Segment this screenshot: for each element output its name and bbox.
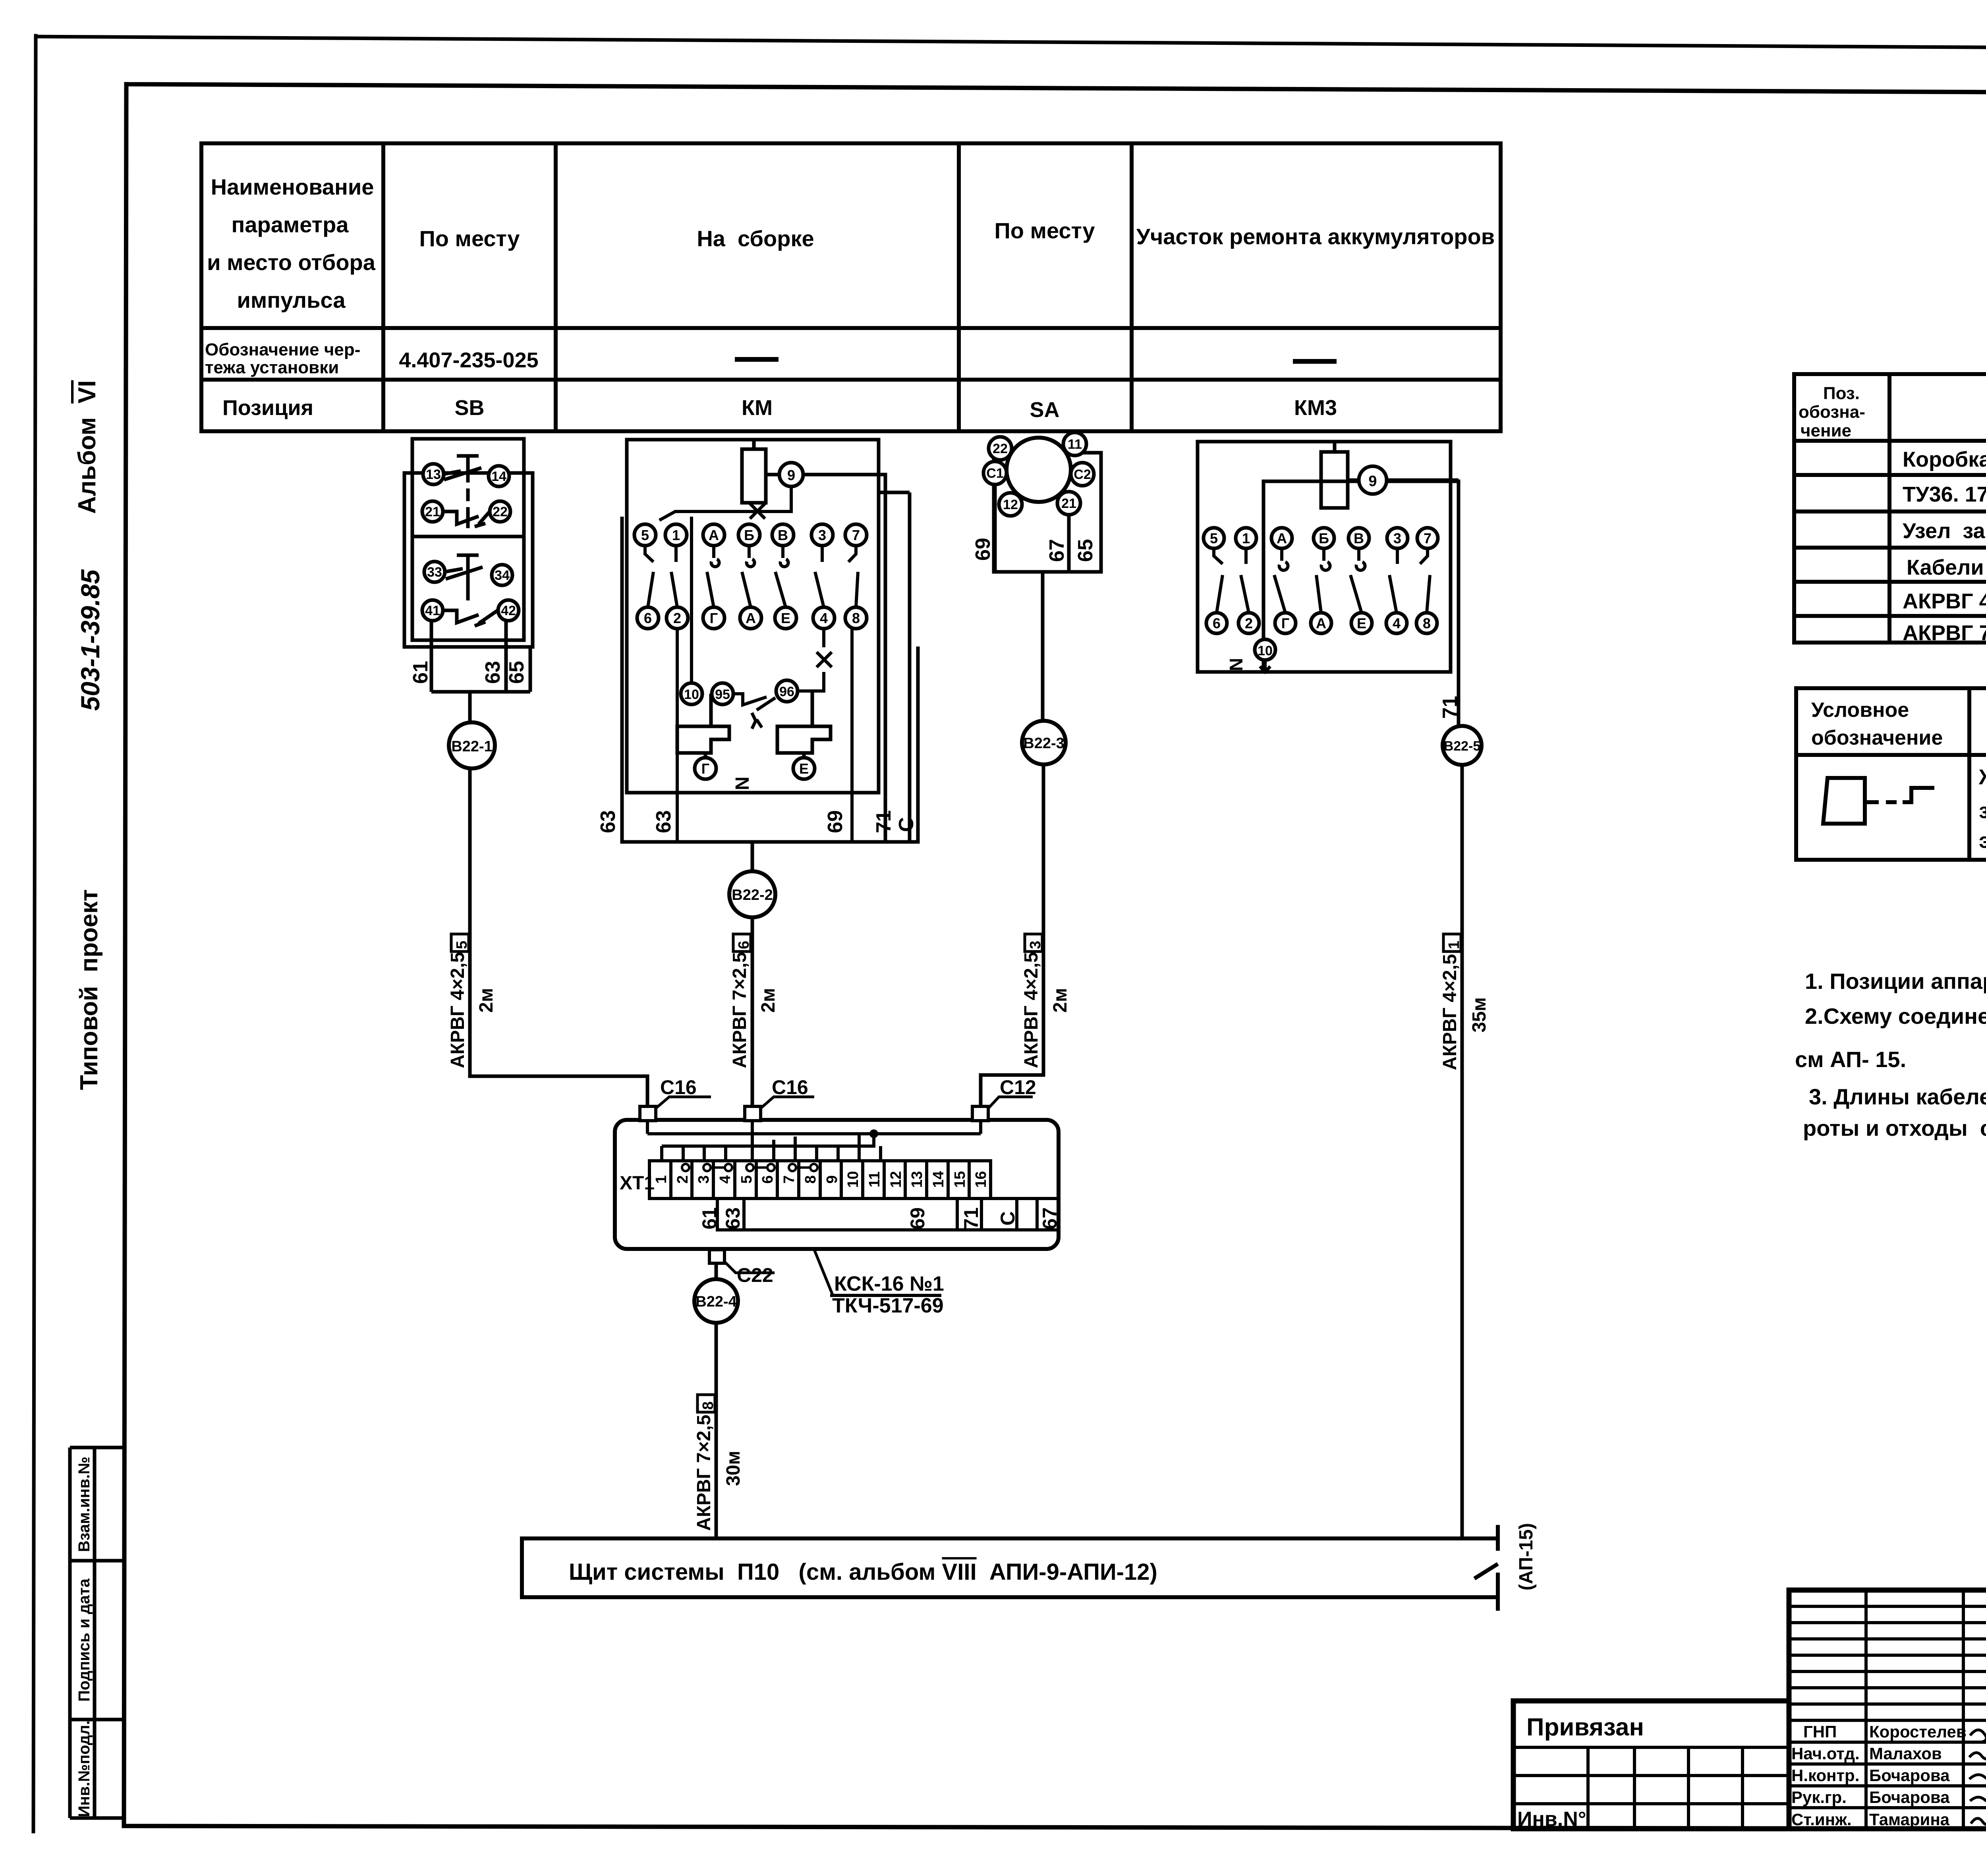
svg-text:9: 9 xyxy=(1368,473,1377,490)
svg-text:Участок ремонта аккумуляторов: Участок ремонта аккумуляторов xyxy=(1136,224,1495,249)
svg-text:В22-2: В22-2 xyxy=(732,887,773,903)
parts header Поз. обозначение xyxy=(1799,384,1865,440)
svg-text:3. Длины кабелей даны с учето: 3. Длины кабелей даны с учетом 6% надбав… xyxy=(1809,1084,1986,1109)
KM wire from terminal 4 to cross lower xyxy=(798,629,832,691)
svg-text:тежа установки: тежа установки xyxy=(205,358,339,377)
svg-text:Узел зануления: Узел зануления xyxy=(1903,519,1986,543)
svg-text:71: 71 xyxy=(1439,696,1462,719)
junction box КСК-16 outer xyxy=(615,1120,1059,1249)
svg-text:А: А xyxy=(1277,530,1287,546)
KM terminal 1 xyxy=(665,524,687,546)
svg-text:5: 5 xyxy=(1210,530,1218,546)
svg-text:Щит системы П10 (см. альбом: Щит системы П10 (см. альбом VIII АПИ-9-А… xyxy=(569,1559,1157,1585)
SA terminal 22 xyxy=(989,437,1012,460)
KM lambda mark xyxy=(752,713,762,729)
terminal link bars xyxy=(711,1166,810,1169)
row: Обозначение чертежа установки xyxy=(205,340,360,377)
SB body box xyxy=(412,439,524,640)
KM contact strokes top row to bottom row xyxy=(645,546,653,607)
dash in Участок column xyxy=(1293,359,1337,364)
SB bottom bus joint xyxy=(431,692,530,722)
KM coil feed wire xyxy=(752,440,756,449)
svg-text:13: 13 xyxy=(909,1171,925,1188)
title block xyxy=(1513,1590,1986,1829)
svg-text:11: 11 xyxy=(866,1172,883,1187)
svg-text:67: 67 xyxy=(1045,539,1068,562)
SA terminal 12 xyxy=(999,493,1022,516)
cable wire SA down xyxy=(1041,572,1045,722)
svg-text:12: 12 xyxy=(888,1171,904,1188)
SB contact 33-34 link xyxy=(445,569,502,575)
svg-text:КМ: КМ xyxy=(742,396,773,420)
KM3 contact strokes xyxy=(1214,548,1223,613)
svg-text:14: 14 xyxy=(491,469,506,484)
svg-text:Н.контр.: Н.контр. xyxy=(1791,1766,1859,1785)
KM terminal 6 xyxy=(637,607,659,629)
KM3 terminal Г xyxy=(1275,613,1296,633)
svg-text:4: 4 xyxy=(1393,615,1401,631)
svg-text:Малахов: Малахов xyxy=(1869,1744,1942,1763)
svg-text:6: 6 xyxy=(736,941,752,949)
KM wire 69 vertical xyxy=(852,629,856,842)
svg-text:71: 71 xyxy=(960,1207,982,1229)
svg-text:5: 5 xyxy=(738,1175,755,1183)
KM terminal 8 xyxy=(845,607,867,629)
KM3 terminal А2 xyxy=(1311,613,1331,633)
SA wire 67 xyxy=(1067,515,1071,572)
cable circle В22-1 xyxy=(449,722,495,768)
svg-text:А: А xyxy=(709,527,719,543)
svg-text:С22: С22 xyxy=(737,1264,773,1286)
svg-text:61: 61 xyxy=(409,661,432,684)
KM3 bus box xyxy=(1263,481,1459,726)
svg-text:Бочарова: Бочарова xyxy=(1869,1788,1950,1807)
svg-text:8: 8 xyxy=(1423,615,1431,631)
svg-text:9: 9 xyxy=(787,467,795,483)
svg-text:Б: Б xyxy=(744,527,754,543)
signature grid columns xyxy=(1864,1590,1868,1829)
terminal numbers 1-16 xyxy=(653,1171,989,1188)
svg-text:защитного проводника и присоед: защитного проводника и присоединяемая к … xyxy=(1979,799,1986,823)
svg-text:10: 10 xyxy=(845,1171,862,1188)
svg-text:15: 15 xyxy=(952,1171,968,1188)
svg-text:Ст.инж.: Ст.инж. xyxy=(1791,1810,1852,1829)
KM terminal Е xyxy=(775,607,796,629)
KM relay left lead xyxy=(705,694,711,758)
KM3 terminal 1 xyxy=(1236,528,1256,548)
cable wire В22-5 to П10 xyxy=(1461,765,1464,1538)
internal bus lines xyxy=(647,1121,981,1161)
SB terminal 41 xyxy=(422,600,443,621)
svg-text:В22-5: В22-5 xyxy=(1444,739,1481,754)
svg-text:В22-4: В22-4 xyxy=(695,1293,737,1310)
svg-text:6: 6 xyxy=(759,1175,776,1183)
svg-text:30м: 30м xyxy=(723,1451,744,1486)
svg-text:3: 3 xyxy=(1393,530,1401,546)
svg-text:1: 1 xyxy=(653,1175,670,1183)
svg-text:На сборке: На сборке xyxy=(697,226,814,251)
top parameters table xyxy=(201,143,1501,431)
svg-text:Жила кабеля, используемая в ка: Жила кабеля, используемая в качестве нул… xyxy=(1978,765,1986,789)
KM3 terminal Е xyxy=(1351,613,1372,633)
svg-text:13: 13 xyxy=(426,467,441,482)
KM terminal В xyxy=(772,524,794,546)
KM coil xyxy=(742,449,766,503)
svg-text:электрооборудования: электрооборудования xyxy=(1979,829,1986,853)
svg-text:В: В xyxy=(778,527,788,543)
SB contact 21-22 xyxy=(443,511,490,527)
KM auxiliary wire 10 up xyxy=(690,517,693,683)
cable wire KM down xyxy=(751,842,754,871)
selector switch SA xyxy=(994,453,1101,572)
C16 stub 1 xyxy=(640,1106,656,1121)
svg-text:С16: С16 xyxy=(772,1076,808,1098)
KM terminal Г lower xyxy=(695,758,716,779)
SB terminal 14 xyxy=(489,466,509,486)
KM wire 71 vertical xyxy=(879,492,910,842)
svg-text:21: 21 xyxy=(425,504,440,519)
KM bus box xyxy=(622,517,918,842)
svg-text:Типовой проект: Типовой проект xyxy=(75,889,103,1090)
KM terminal 5 xyxy=(634,524,656,546)
KM coil to terminal 9 wire xyxy=(766,473,779,477)
svg-text:6: 6 xyxy=(1213,615,1221,631)
svg-text:2м: 2м xyxy=(1050,988,1071,1013)
svg-text:Е: Е xyxy=(781,610,790,626)
signatures squiggles xyxy=(1969,1730,1986,1824)
svg-text:Рук.гр.: Рук.гр. xyxy=(1791,1788,1847,1807)
svg-text:503-1-39.85: 503-1-39.85 xyxy=(75,569,105,711)
svg-text:67: 67 xyxy=(1039,1207,1061,1229)
KM3 terminal 3 xyxy=(1387,528,1408,548)
svg-text:8: 8 xyxy=(802,1175,819,1183)
svg-text:Позиция: Позиция xyxy=(222,396,313,420)
C16 stub 1 label leader xyxy=(656,1097,711,1108)
cable wire В22-4 to П10 xyxy=(715,1323,718,1538)
svg-text:SB: SB xyxy=(454,396,484,420)
KM3 terminal 9 xyxy=(1359,466,1387,494)
svg-text:69: 69 xyxy=(824,810,847,833)
svg-text:8: 8 xyxy=(852,610,860,626)
C22 label leader xyxy=(725,1262,775,1273)
svg-text:41: 41 xyxy=(425,603,440,618)
svg-text:4: 4 xyxy=(717,1175,734,1183)
page outer border top xyxy=(36,37,1986,51)
svg-text:N: N xyxy=(732,776,753,790)
svg-text:22: 22 xyxy=(493,504,508,519)
terminal link circles xyxy=(682,1164,817,1171)
C16 stub 2 label leader xyxy=(761,1097,814,1108)
junction dot xyxy=(869,1129,878,1138)
SB terminal 33 xyxy=(424,562,445,582)
svg-text:параметра: параметра xyxy=(232,212,349,237)
svg-text:11: 11 xyxy=(1068,437,1082,452)
svg-text:АКРВГ 4×2,5: АКРВГ 4×2,5 xyxy=(1439,954,1461,1070)
svg-text:14: 14 xyxy=(930,1171,947,1188)
C12 stub label leader xyxy=(989,1097,1033,1108)
SB terminal 13 xyxy=(423,464,444,484)
KM terminal 10 xyxy=(681,683,702,704)
svg-text:Коробка соединительная КСК-16: Коробка соединительная КСК-16 xyxy=(1903,448,1986,471)
svg-text:КМ3: КМ3 xyxy=(1294,396,1337,420)
svg-text:7: 7 xyxy=(852,527,860,543)
svg-text:(АП-15): (АП-15) xyxy=(1516,1523,1537,1590)
svg-text:2: 2 xyxy=(1245,615,1253,631)
SA terminal 21 xyxy=(1057,492,1080,515)
signature rows xyxy=(1791,1722,1967,1829)
svg-text:12: 12 xyxy=(1003,497,1018,512)
svg-text:1: 1 xyxy=(672,527,680,543)
svg-text:С12: С12 xyxy=(1000,1076,1036,1098)
svg-text:АКРВГ 7× 2,5: АКРВГ 7× 2,5 xyxy=(1903,621,1986,645)
KM body box xyxy=(627,440,879,793)
svg-text:Б: Б xyxy=(1319,530,1329,546)
legend table xyxy=(1796,688,1986,860)
SA body box xyxy=(994,453,1101,572)
KM terminal 96 xyxy=(776,680,798,702)
svg-text:2м: 2м xyxy=(476,988,497,1013)
svg-text:Инв.№подл.: Инв.№подл. xyxy=(75,1720,93,1817)
svg-text:3: 3 xyxy=(1027,941,1044,949)
name rows xyxy=(1789,1719,1986,1722)
svg-text:Наименование: Наименование xyxy=(211,174,374,199)
svg-text:В22-1: В22-1 xyxy=(451,738,493,755)
svg-text:АКРВГ 4×2,5: АКРВГ 4×2,5 xyxy=(1021,952,1042,1068)
svg-text:Бочарова: Бочарова xyxy=(1869,1766,1950,1785)
svg-text:6: 6 xyxy=(644,610,652,626)
svg-text:63: 63 xyxy=(597,810,620,833)
svg-text:Взам.инв.№: Взам.инв.№ xyxy=(75,1457,93,1552)
svg-text:SA: SA xyxy=(1030,398,1059,422)
SB terminal 42 xyxy=(498,600,519,621)
svg-text:61: 61 xyxy=(698,1207,721,1229)
svg-text:69: 69 xyxy=(906,1207,929,1229)
svg-text:7: 7 xyxy=(1424,530,1432,546)
thin rows xyxy=(1789,1605,1986,1608)
svg-text:Условное: Условное xyxy=(1811,699,1909,722)
SB contact 13-14 link xyxy=(444,471,499,476)
cable circle В22-5 xyxy=(1443,726,1482,765)
cable wire В22-2 to C16 xyxy=(751,917,754,1108)
svg-text:16: 16 xyxy=(973,1171,989,1188)
svg-text:63: 63 xyxy=(652,810,675,833)
KM relay block left xyxy=(677,726,729,753)
svg-text:7: 7 xyxy=(781,1175,798,1183)
svg-text:см АП- 15.: см АП- 15. xyxy=(1795,1047,1906,1072)
svg-text:1: 1 xyxy=(1242,530,1250,546)
KM terminal 9 xyxy=(779,463,803,486)
svg-text:Инв.N°: Инв.N° xyxy=(1517,1808,1586,1831)
svg-text:2: 2 xyxy=(673,610,681,626)
switch SB xyxy=(404,439,533,647)
svg-text:обозна-: обозна- xyxy=(1799,402,1865,422)
svg-text:33: 33 xyxy=(427,565,442,580)
svg-text:Привязан: Привязан xyxy=(1526,1714,1644,1741)
KM3 body box xyxy=(1198,442,1451,672)
svg-text:Г: Г xyxy=(710,610,718,626)
svg-text:65: 65 xyxy=(1074,539,1097,562)
svg-text:34: 34 xyxy=(495,568,510,583)
KCK-16 designation leader xyxy=(814,1250,833,1297)
svg-text:ГНП: ГНП xyxy=(1803,1722,1837,1741)
KM3 coil to terminal 9 wire xyxy=(1348,479,1359,482)
svg-text:63: 63 xyxy=(722,1207,744,1229)
svg-text:8: 8 xyxy=(700,1401,717,1410)
contactor KM xyxy=(622,440,918,842)
svg-text:71: 71 xyxy=(872,810,895,833)
svg-text:2м: 2м xyxy=(758,988,779,1013)
svg-text:3: 3 xyxy=(695,1175,712,1183)
KM3 wire terminal 9 to right bus xyxy=(1387,479,1459,482)
parts table xyxy=(1794,374,1986,643)
svg-text:5: 5 xyxy=(641,527,649,543)
KM3 terminal Б xyxy=(1314,528,1334,548)
KM3 terminal 7 xyxy=(1417,528,1438,548)
svg-text:АКРВГ 4×2,5: АКРВГ 4×2,5 xyxy=(1903,589,1986,613)
svg-text:АКРВГ 7×2,5: АКРВГ 7×2,5 xyxy=(729,952,750,1068)
KM3 terminal 4 xyxy=(1386,613,1407,633)
KM terminal 3 xyxy=(811,524,833,546)
KM terminal 4 xyxy=(813,607,835,629)
KM wire 63b from terminal 2 xyxy=(676,629,679,842)
svg-text:10: 10 xyxy=(1258,643,1273,658)
svg-text:95: 95 xyxy=(715,687,730,702)
svg-text:ТКЧ-517-69: ТКЧ-517-69 xyxy=(832,1294,944,1317)
svg-text:чение: чение xyxy=(1801,421,1851,440)
svg-text:96: 96 xyxy=(779,684,794,699)
svg-text:ТУ36. 1753-75: ТУ36. 1753-75 xyxy=(1903,483,1986,506)
KM3 terminal В xyxy=(1348,528,1369,548)
break slash xyxy=(1474,1564,1498,1579)
left attachment grid xyxy=(1513,1746,1789,1749)
SB contact T actuator upper xyxy=(457,456,479,528)
svg-text:С1: С1 xyxy=(986,466,1003,481)
svg-text:2: 2 xyxy=(674,1175,691,1183)
SB terminal 34 xyxy=(492,565,512,585)
svg-text:АКРВГ 7×2,5: АКРВГ 7×2,5 xyxy=(694,1415,715,1531)
C16 stub 2 xyxy=(745,1106,761,1121)
svg-text:Подпись и дата: Подпись и дата xyxy=(75,1578,93,1702)
KM3 terminal 5 xyxy=(1204,528,1224,548)
svg-text:9: 9 xyxy=(824,1175,840,1183)
svg-text:АКРВГ 4×2,5: АКРВГ 4×2,5 xyxy=(447,952,468,1068)
svg-text:Е: Е xyxy=(799,760,809,777)
SA terminal С2 xyxy=(1071,463,1094,486)
KM3 wire 10 to bottom xyxy=(1260,660,1270,672)
wire 65 right bus edge xyxy=(529,647,532,692)
wire 63 from terminal 42 xyxy=(504,621,508,692)
KM aux contact 95-96 xyxy=(734,694,775,710)
svg-text:В: В xyxy=(1354,530,1364,546)
header: Наименование параметра и место отбора импульса xyxy=(207,174,1495,313)
SB terminal 21 xyxy=(422,501,443,522)
svg-text:КСК-16 №1: КСК-16 №1 xyxy=(834,1272,944,1295)
cable wire В22-3 to C12 xyxy=(981,764,1043,1108)
svg-text:Е: Е xyxy=(1357,615,1366,631)
svg-text:3: 3 xyxy=(818,527,826,543)
KM terminal 2 xyxy=(667,607,688,629)
svg-text:Г: Г xyxy=(1281,615,1289,631)
svg-text:63: 63 xyxy=(481,661,504,684)
KM terminal Е lower xyxy=(793,758,815,779)
page outer border left xyxy=(33,36,36,1832)
svg-text:35м: 35м xyxy=(1469,997,1490,1033)
cable circle В22-2 xyxy=(729,871,775,917)
svg-text:2.Схему соединений внешних про: 2.Схему соединений внешних проводок прит… xyxy=(1805,1004,1986,1029)
KM terminal 95 xyxy=(712,683,733,704)
svg-text:А: А xyxy=(1316,615,1326,631)
svg-text:4: 4 xyxy=(820,610,828,626)
KM terminal А xyxy=(703,524,724,546)
cable wire to В22-4 xyxy=(715,1263,718,1280)
SA terminal С1 xyxy=(983,461,1007,484)
KM relay right lead xyxy=(804,691,812,758)
KM3 coil feed wire xyxy=(1333,442,1337,452)
KM3 terminal 6 xyxy=(1206,613,1227,633)
svg-text:Альбом VI: Альбом VI xyxy=(73,380,101,514)
SB contact T actuator lower xyxy=(457,555,479,600)
SA rotary body circle xyxy=(1007,438,1071,502)
svg-text:и место отбора: и место отбора xyxy=(207,250,376,275)
svg-text:С16: С16 xyxy=(660,1076,697,1098)
svg-text:Коростелев: Коростелев xyxy=(1869,1722,1967,1741)
svg-text:С: С xyxy=(997,1211,1019,1226)
svg-text:По месту: По месту xyxy=(419,226,520,251)
svg-text:Обозначение чер-: Обозначение чер- xyxy=(205,340,360,359)
SB contact 41-42 xyxy=(443,610,498,626)
cable circle В22-3 xyxy=(1022,721,1066,764)
terminal strip XT1 xyxy=(649,1161,991,1199)
KM3 coil xyxy=(1321,452,1348,508)
legend symbol: null-protective core xyxy=(1823,778,1934,824)
svg-text:Поз.: Поз. xyxy=(1823,384,1860,403)
svg-text:21: 21 xyxy=(1061,496,1076,511)
svg-text:42: 42 xyxy=(501,603,516,618)
svg-text:Тамарина: Тамарина xyxy=(1869,1810,1950,1829)
svg-text:4.407-235-025: 4.407-235-025 xyxy=(399,348,538,372)
svg-text:Кабели ГОСТ 1508-78*Е: Кабели ГОСТ 1508-78*Е xyxy=(1907,556,1986,579)
KM terminal А2 xyxy=(740,607,761,629)
KM terminal Б xyxy=(738,524,760,546)
panel П10 box xyxy=(522,1525,1498,1611)
svg-text:С2: С2 xyxy=(1074,467,1091,482)
cable circle В22-4 xyxy=(694,1279,738,1323)
KM terminal Г xyxy=(703,607,724,629)
C22 stub xyxy=(709,1250,724,1263)
svg-text:В22-3: В22-3 xyxy=(1023,735,1064,752)
KM relay block right xyxy=(777,726,831,753)
svg-text:1: 1 xyxy=(1446,941,1462,949)
KM3 terminal 8 xyxy=(1416,613,1437,633)
svg-text:Г: Г xyxy=(701,760,709,777)
KM3 terminal 10 (Ю) xyxy=(1255,639,1275,660)
svg-text:обозначение: обозначение xyxy=(1811,726,1943,749)
SA wire 69 xyxy=(993,484,997,572)
cable wire from В22-1 to C16 xyxy=(470,768,647,1108)
SB terminal 22 xyxy=(490,501,510,522)
svg-text:65: 65 xyxy=(505,661,528,684)
svg-text:22: 22 xyxy=(993,441,1008,456)
svg-text:роты и отходы согласно письма: роты и отходы согласно письма Госстроя С… xyxy=(1803,1116,1986,1141)
svg-text:1. Позиции аппаратуры указаны: 1. Позиции аппаратуры указаны согласно А… xyxy=(1805,969,1986,994)
contactor KM3 xyxy=(1198,442,1459,726)
wire 61 from terminal 41 xyxy=(430,621,433,692)
svg-text:Нач.отд.: Нач.отд. xyxy=(1791,1744,1860,1763)
KM3 terminal 2 xyxy=(1238,613,1259,633)
dash in На сборке column xyxy=(735,357,779,362)
SB outer bus box xyxy=(404,473,533,647)
KM cross mark upper xyxy=(750,504,765,519)
